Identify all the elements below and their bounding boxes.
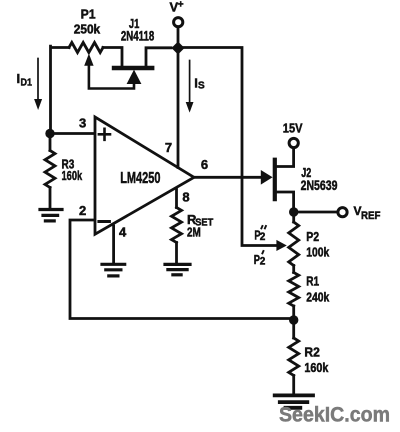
- svg-text:240k: 240k: [306, 289, 330, 304]
- node R1/R2 (feedback): [289, 315, 298, 324]
- arrowhead to J2 gate: [261, 170, 273, 185]
- current arrow ID1: [37, 59, 39, 101]
- wire top rail right: [178, 48, 278, 246]
- svg-text:LM4250: LM4250: [120, 170, 160, 187]
- transistor J2 drain lead: [277, 148, 294, 167]
- transistor J1 gate arrow: [127, 70, 142, 84]
- P2 wiper arrow: [276, 240, 286, 251]
- resistor RSET: [172, 208, 182, 243]
- transistor J2 channel: [273, 160, 277, 200]
- wire top rail left from P1 left end down to node A: [51, 46, 123, 133]
- wire V+ vertical / pin 7: [177, 27, 180, 168]
- svg-text:2N4118: 2N4118: [121, 28, 154, 44]
- node junction V+: [172, 42, 185, 55]
- svg-text:SeekIC.com: SeekIC.com: [279, 404, 390, 427]
- svg-text:2M: 2M: [187, 224, 201, 239]
- wire pin 4: [112, 226, 115, 263]
- terminal VREF: [338, 208, 347, 217]
- wire pin 3: [50, 132, 94, 135]
- potentiometer P2: [292, 212, 295, 222]
- resistor R1: [292, 266, 295, 317]
- svg-text:3: 3: [79, 116, 86, 131]
- svg-text:S: S: [198, 81, 205, 92]
- svg-text:R2: R2: [304, 345, 320, 360]
- transistor J1 source lead: [146, 48, 171, 67]
- svg-text:P2: P2: [306, 229, 319, 244]
- svg-text:100k: 100k: [306, 245, 330, 260]
- wire to VREF terminal: [294, 211, 338, 214]
- current arrow IS: [189, 61, 191, 104]
- svg-text:D1: D1: [21, 78, 33, 89]
- transistor J1 channel: [114, 66, 152, 70]
- terminal 15V: [289, 138, 298, 147]
- svg-text:160k: 160k: [62, 168, 83, 183]
- svg-text:2: 2: [79, 203, 86, 218]
- potentiometer P1: [69, 43, 103, 53]
- resistor R3: [49, 138, 52, 209]
- ground (pin 4): [102, 264, 125, 276]
- ground (RSET): [165, 264, 190, 274]
- svg-text:250k: 250k: [74, 22, 101, 37]
- wire pin 8: [175, 190, 178, 208]
- svg-text:P1: P1: [81, 7, 96, 22]
- svg-text:2: 2: [260, 231, 266, 243]
- svg-text:4: 4: [119, 224, 127, 239]
- svg-text:15V: 15V: [283, 121, 303, 136]
- P1 wiper arrow: [89, 65, 134, 89]
- svg-text:2N5639: 2N5639: [301, 177, 338, 193]
- wire pin 2 / feedback: [70, 220, 294, 319]
- svg-text:R1: R1: [306, 274, 319, 289]
- terminal V+: [174, 18, 183, 27]
- op-amp U1 LM4250: [95, 117, 194, 234]
- svg-text:8: 8: [182, 189, 189, 204]
- resistor R2: [292, 320, 295, 393]
- node A (pin3/R3): [45, 129, 54, 138]
- ground (R3): [40, 210, 62, 221]
- node VREF: [289, 207, 298, 216]
- svg-text:REF: REF: [361, 210, 381, 222]
- svg-text:6: 6: [201, 157, 208, 172]
- svg-text:2: 2: [260, 256, 266, 268]
- op-amp - input mark: [99, 220, 110, 223]
- transistor J2 source lead: [277, 192, 294, 212]
- svg-text:160k: 160k: [304, 360, 329, 375]
- svg-text:7: 7: [165, 140, 172, 155]
- ground (R2): [275, 395, 313, 407]
- svg-text:+: +: [178, 0, 184, 11]
- wire op-amp output pin 6: [194, 176, 262, 179]
- op-amp + input mark: [99, 129, 110, 140]
